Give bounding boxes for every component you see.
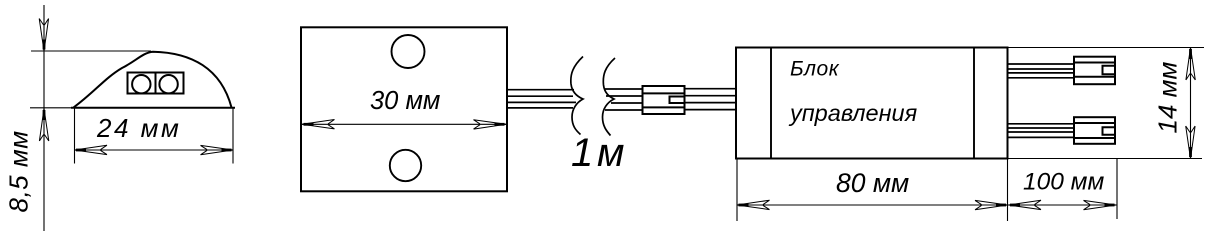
cable break squiggle right: [603, 58, 616, 136]
dimension 14 mm extension bottom: [1008, 158, 1203, 160]
dimension 24 mm line: [75, 149, 234, 151]
bottom plug lower inner line: [1074, 137, 1115, 139]
bottom plug upper inner line: [1074, 122, 1115, 124]
svg-text:24 мм: 24 мм: [96, 113, 181, 143]
dimension 30 mm arrow right: [474, 120, 507, 129]
dimension 8,5 mm arrow down: [39, 19, 48, 52]
output wire top pair upper: [1008, 64, 1075, 78]
dimension 24 mm arrow left: [75, 145, 108, 154]
dimension 30 mm arrow left: [302, 120, 335, 129]
sensor head dome outline: [74, 52, 232, 108]
lens housing divider: [155, 73, 157, 94]
top plug upper inner line: [1074, 62, 1115, 64]
dimension 8,5 mm extension line top: [31, 50, 151, 52]
inline connector body: [643, 86, 685, 114]
cable wires connector to control unit: [685, 89, 737, 110]
svg-text:100 мм: 100 мм: [1023, 169, 1104, 196]
sensor body bottom hole: [390, 150, 421, 181]
dimension 14 mm line: [1190, 48, 1192, 159]
dimension 80 mm arrow right: [975, 200, 1008, 209]
sensor lens housing rectangle: [128, 73, 184, 94]
sensor head base line: [71, 107, 235, 109]
right lens circle: [159, 75, 177, 93]
svg-text:80 мм: 80 мм: [836, 168, 909, 198]
inline connector upper inner line: [643, 92, 685, 94]
dimension 100 mm extension right: [1116, 159, 1118, 220]
svg-text:Блок: Блок: [790, 58, 840, 81]
svg-text:управления: управления: [788, 100, 918, 126]
inline connector lower inner line: [643, 106, 685, 108]
dimension 30 mm line: [301, 123, 507, 125]
svg-text:30 мм: 30 мм: [370, 87, 440, 115]
dimension 80 mm line: [737, 204, 1117, 206]
dimension 8,5 mm line: [43, 5, 45, 231]
dimension 24 mm extension right: [232, 108, 234, 164]
left lens circle: [132, 75, 150, 93]
top plug lower inner line: [1074, 76, 1115, 78]
cable break squiggle left: [571, 57, 583, 135]
top output plug body: [1074, 57, 1115, 84]
dimension 100 mm arrow left: [1009, 200, 1042, 209]
inline connector latch notch: [670, 97, 685, 104]
svg-text:14 мм: 14 мм: [1153, 62, 1183, 134]
dimension 100 mm arrow right: [1084, 200, 1117, 209]
dimension 14 mm extension top: [1008, 47, 1205, 49]
dimension 24 mm arrow right: [201, 145, 234, 154]
sensor body top hole: [392, 35, 425, 68]
dimension 8,5 mm extension line bottom: [30, 107, 71, 109]
dimension 14 mm arrow down: [1186, 126, 1195, 159]
output wire bottom pair: [1008, 124, 1075, 138]
dimension 8,5 mm arrow up: [39, 109, 48, 142]
sensor body rectangle (top view): [301, 27, 507, 191]
dimension 80 mm arrow left: [737, 200, 770, 209]
svg-text:8,5 мм: 8,5 мм: [4, 130, 34, 212]
control unit left divider: [770, 48, 772, 159]
control unit box: [736, 48, 1008, 159]
top plug latch notch: [1103, 66, 1115, 74]
svg-text:м: м: [597, 131, 624, 175]
dimension 14 mm arrow up: [1186, 48, 1195, 81]
cable wires sensor to break: [506, 90, 576, 108]
control unit right divider: [973, 48, 975, 159]
svg-text:1: 1: [571, 131, 593, 175]
bottom plug latch notch: [1103, 127, 1115, 135]
bottom output plug body: [1074, 117, 1115, 144]
dimension 80 mm extension left: [736, 159, 738, 222]
dimension 80 mm / 100 mm shared extension: [1007, 159, 1009, 222]
cable wires break to connector: [605, 89, 643, 110]
dimension 24 mm extension left: [74, 108, 76, 164]
